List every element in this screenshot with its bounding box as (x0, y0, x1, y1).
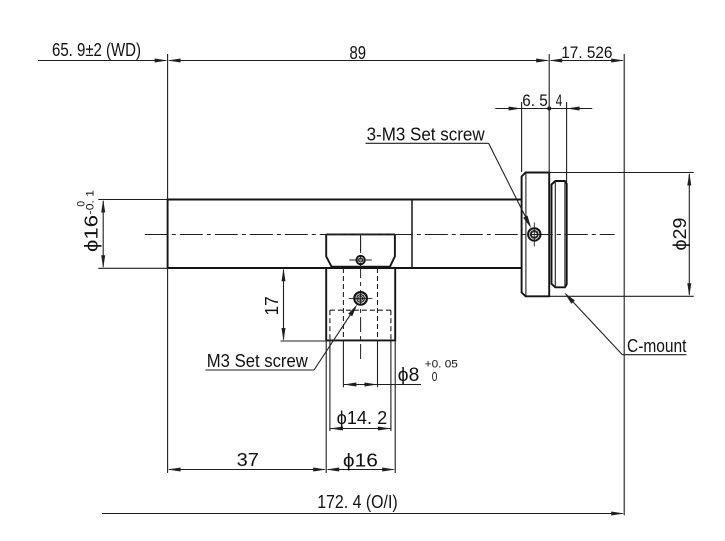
dimension phi14.2 counterbore (330, 428, 391, 430)
svg-text:17: 17 (262, 296, 282, 315)
mount block lower section outline (326, 268, 395, 340)
svg-text:ϕ14. 2: ϕ14. 2 (337, 408, 388, 428)
flange body outline (phi29) (522, 173, 550, 297)
svg-text:ϕ16: ϕ16 (343, 451, 378, 471)
hidden line phi14.2 counterbore left (329, 310, 331, 340)
extension line at flange rear face (548, 54, 550, 173)
svg-text:0: 0 (432, 370, 438, 384)
flange chamfer edge line (525, 173, 527, 296)
svg-text:+0. 05: +0. 05 (425, 359, 458, 371)
svg-text:3-M3 Set screw: 3-M3 Set screw (367, 125, 486, 145)
svg-text:ϕ16: ϕ16 (82, 215, 102, 252)
ring inner edge line left (554, 181, 556, 287)
extension line at flange front face (521, 102, 523, 172)
svg-text:4: 4 (556, 91, 563, 110)
mount block upper section outline (326, 234, 395, 267)
hidden line phi8 bore right (377, 268, 379, 340)
svg-text:172. 4 (O/I): 172. 4 (O/I) (317, 492, 398, 512)
dimension 65.9±2(WD) (38, 60, 166, 62)
block vertical center line (360, 236, 362, 363)
extension lines below block for phi14.2 (329, 340, 331, 431)
dimension 17.526 (551, 60, 623, 62)
main tube body outline (phi16 barrel) (168, 200, 522, 269)
dimension 37 (169, 469, 324, 471)
set screw on flange (3-M3) (528, 228, 540, 240)
extension line at ring rear face (566, 102, 568, 183)
dimension phi16 tube diameter with tolerance (102, 201, 104, 267)
extension lines for phi29 (549, 172, 694, 174)
extension line at image plane (623, 54, 625, 515)
dimension 172.4 overall O/I (102, 513, 623, 515)
svg-text:89: 89 (350, 43, 367, 63)
svg-text:65. 9±2 (WD): 65. 9±2 (WD) (52, 40, 141, 60)
hidden line phi14.2 counterbore right (390, 310, 392, 340)
extension line for 17 dim at block bottom (281, 340, 327, 342)
svg-text:ϕ8: ϕ8 (398, 365, 420, 386)
svg-text:C-mount: C-mount (627, 336, 687, 356)
svg-text:17. 526: 17. 526 (561, 43, 612, 62)
dimension phi29 flange diameter (688, 174, 690, 295)
dimension 6.5 / 4 (495, 108, 592, 110)
extension line at tube left face (167, 54, 169, 200)
C-mount thread ring outline (552, 181, 567, 287)
svg-text:-0. 1: -0. 1 (85, 190, 97, 214)
dimension phi16 block diameter (328, 469, 394, 471)
tube joint line (411, 200, 413, 269)
dimension 89 (169, 60, 547, 62)
extension lines for phi16 tube diameter (98, 199, 167, 201)
dimension phi8 bore with tolerance (344, 384, 421, 386)
mount block upper bottom edge (332, 266, 390, 268)
svg-text:37: 37 (237, 450, 259, 470)
svg-text:ϕ29: ϕ29 (670, 218, 690, 251)
extension lines below block for phi16 (325, 340, 327, 473)
hidden line phi8 bore left (342, 268, 344, 340)
dimension 17 block depth (283, 270, 285, 340)
extension lines below block for phi8 (342, 340, 344, 387)
svg-text:M3 Set screw: M3 Set screw (207, 351, 309, 371)
ring inner edge line right (564, 181, 566, 287)
svg-text:6. 5: 6. 5 (522, 91, 548, 110)
set screw on block top (356, 256, 364, 264)
hidden line phi14.2 counterbore top (330, 309, 391, 311)
horizontal center line (145, 234, 615, 236)
M3 set screw in block (354, 292, 367, 305)
